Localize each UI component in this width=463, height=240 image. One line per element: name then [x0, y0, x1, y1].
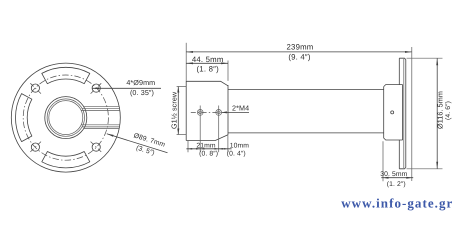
svg-text:www.info-gate.gr: www.info-gate.gr	[341, 196, 453, 211]
leader arrow d89.7	[107, 134, 114, 137]
svg-text:G1½ screw: G1½ screw	[169, 91, 178, 129]
svg-text:10mm: 10mm	[230, 142, 250, 149]
239 arrow left	[186, 51, 193, 53]
G screw top tick	[177, 86, 187, 88]
leader line for dia 89.7	[107, 134, 168, 153]
cable channel wire line	[81, 109, 120, 111]
flange bottom edge	[399, 168, 406, 169]
bolt circle centerline (dia 89.7mm)	[23, 75, 108, 160]
21/10 arrows	[188, 148, 192, 150]
svg-text:Ø116. 5mm: Ø116. 5mm	[436, 91, 445, 129]
flange front face lower segment	[398, 140, 400, 169]
svg-text:(0. 8″): (0. 8″)	[199, 151, 218, 158]
2*M4 leader arrow	[221, 111, 227, 113]
ext line 239/30.5 right	[411, 47, 413, 181]
M4 hole left outer	[197, 110, 203, 116]
flange outer circle (left view)	[11, 63, 120, 172]
239 dim line	[186, 51, 412, 53]
extension line below left M4 hole	[199, 106, 201, 152]
ext line 44.5 left / 239 left	[185, 43, 187, 81]
116.5 dim line	[436, 58, 438, 168]
pipe top edge	[228, 89, 384, 91]
mount block outline (side view)	[186, 81, 228, 140]
cable channel wire line	[84, 106, 119, 108]
ext line block right face down	[227, 135, 229, 152]
pipe bottom edge	[228, 132, 384, 134]
ext line 44.5 right	[227, 61, 229, 81]
mounting hole top-left (dia 9mm)	[31, 84, 39, 92]
ext line 116.5 bottom	[407, 168, 443, 170]
hub middle circle	[47, 99, 84, 136]
30.5 dim line	[381, 177, 413, 179]
44.5 dim line	[186, 62, 228, 64]
svg-text:4*Ø9mm: 4*Ø9mm	[126, 78, 155, 87]
block centerline	[191, 111, 221, 113]
svg-text:30. 5mm: 30. 5mm	[380, 171, 407, 178]
flange back face	[405, 60, 407, 168]
116.5 arrow up	[436, 58, 438, 65]
svg-text:44. 5mm: 44. 5mm	[192, 55, 224, 64]
svg-text:(4. 6″): (4. 6″)	[445, 101, 452, 120]
hub inner circle	[49, 101, 83, 135]
G screw arrow up	[177, 87, 179, 93]
svg-text:(1. 2″): (1. 2″)	[387, 181, 406, 188]
44.5 arrow right	[221, 62, 228, 64]
end hub outline	[384, 85, 403, 140]
svg-text:(0. 35″): (0. 35″)	[130, 88, 154, 97]
44.5 arrow left	[186, 62, 193, 64]
radial centerline through top-right hole	[91, 82, 103, 94]
flange chamfer line	[403, 59, 405, 168]
svg-text:(0. 4″): (0. 4″)	[227, 151, 246, 158]
239 arrow right	[405, 51, 412, 53]
ext line left of 21mm	[187, 141, 189, 153]
ext line 30.5 left	[382, 141, 384, 181]
arc slot bottom	[42, 152, 90, 168]
mounting hole bottom-left (dia 9mm)	[31, 143, 39, 151]
116.5 arrow down	[436, 162, 438, 169]
G screw bottom tick	[177, 134, 187, 136]
arc slot top	[42, 67, 90, 83]
flange front face upper segment	[398, 58, 400, 84]
svg-text:(9. 4″): (9. 4″)	[288, 52, 311, 61]
cable channel wire line	[82, 107, 119, 109]
M4 hole left inner	[199, 111, 202, 114]
radial centerline through bottom-right hole	[91, 142, 103, 154]
ext line 116.5 top	[407, 57, 443, 59]
radial centerline through bottom-left hole	[29, 142, 41, 154]
leader line for 4*d9 holes	[92, 87, 161, 89]
2*M4 leader line	[221, 111, 249, 113]
mounting hole bottom-right (dia 9mm)	[92, 143, 100, 151]
cable channel wire line	[84, 128, 119, 130]
arc slot left	[16, 94, 32, 142]
radial centerline through top-left hole	[29, 82, 41, 94]
21/10 dim line	[186, 148, 231, 150]
cable channel wire line	[81, 124, 120, 126]
extension line below right M4 hole	[218, 106, 220, 153]
mounting hole top-right (dia 9mm)	[92, 84, 100, 92]
svg-text:21mm: 21mm	[196, 142, 216, 149]
leader arrow 4*d9	[92, 87, 99, 89]
flange top edge	[399, 58, 406, 59]
cable channel wire line	[82, 126, 119, 128]
30.5 arrow left	[383, 177, 389, 179]
svg-text:239mm: 239mm	[287, 43, 314, 52]
M4 hole right inner	[217, 111, 220, 114]
30.5 arrow right	[406, 177, 412, 179]
svg-text:(1. 8″): (1. 8″)	[197, 64, 220, 73]
M4 hole right outer	[216, 110, 222, 116]
svg-text:2*M4: 2*M4	[232, 104, 249, 113]
hub outer circle	[45, 97, 87, 139]
G screw arrow down	[177, 129, 179, 135]
hub set-screw hole	[391, 111, 394, 114]
G screw thread extent line	[177, 87, 179, 135]
